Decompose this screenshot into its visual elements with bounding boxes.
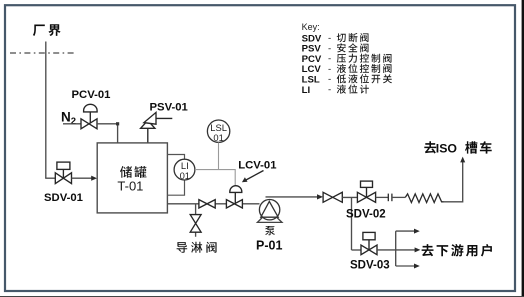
label P-01	[256, 238, 282, 252]
flexible hose (zigzag) to loading arm	[405, 194, 443, 203]
svg-text:2: 2	[71, 116, 76, 127]
svg-text:LCV-01: LCV-01	[238, 160, 276, 172]
wire: drain line	[195, 204, 197, 237]
valve SDV-01 (shutdown valve) with actuator	[55, 162, 71, 184]
legend row SDV	[302, 33, 369, 44]
svg-text:SDV-03: SDV-03	[350, 259, 390, 271]
svg-text:PCV-01: PCV-01	[72, 89, 111, 101]
signal wire: LI-01 to LCV-01	[195, 170, 235, 187]
label: tank (chu guan)	[120, 166, 147, 178]
svg-text:ISO: ISO	[436, 141, 458, 155]
label: to ISO tank truck (qu ISO cao che)	[424, 141, 491, 155]
label: plant boundary (chang jie)	[33, 24, 61, 36]
manual block valve (tank outlet)	[199, 200, 215, 208]
instrument LI-01 (level indicator) circle	[174, 159, 195, 181]
wire: N2 feed vertical line from boundary	[45, 42, 47, 179]
svg-text:LI: LI	[302, 85, 311, 96]
legend row PSV	[302, 43, 369, 54]
valve SDV-02 (shutdown valve) with actuator	[357, 181, 375, 202]
legend row LCV	[302, 64, 392, 75]
valve PCV-01 (pressure control valve) with diaphragm actuator	[81, 104, 97, 129]
signal wire: LSL-01 down to level signal line	[218, 143, 220, 170]
label PCV-01	[72, 89, 111, 101]
legend row LI	[302, 84, 369, 95]
tank T-01 vessel	[97, 143, 167, 213]
pump P-01 (centrifugal pump)	[257, 200, 282, 223]
svg-text:PSV-01: PSV-01	[150, 102, 188, 114]
wire: up to ISO tank truck with arrow	[444, 157, 466, 202]
wire: PCV-01 to tank top, corner junction	[97, 122, 119, 143]
label T-01	[117, 178, 143, 193]
drain valve (dao lin fa), vertical manual valve	[190, 215, 201, 233]
wire: bottom user branch with arrow	[396, 264, 420, 269]
svg-text:T-01: T-01	[117, 178, 143, 193]
svg-text:Key:: Key:	[302, 22, 320, 32]
legend row LSL	[302, 74, 392, 85]
wire + hose coupling (break flanges)	[376, 194, 406, 202]
valve SDV-03 (shutdown valve) with actuator	[361, 232, 377, 254]
svg-text:-: -	[328, 85, 331, 96]
wire: SDV-01 to tank with arrow	[72, 176, 98, 181]
label N2	[61, 109, 76, 127]
svg-text:SDV-02: SDV-02	[346, 208, 386, 220]
label LCV-01	[238, 160, 276, 172]
wire: middle user branch with arrow	[396, 247, 421, 252]
wire: pump discharge with arrow	[266, 194, 324, 199]
label SDV-01	[44, 192, 83, 204]
svg-text:N: N	[61, 109, 71, 124]
label PSV-01	[150, 102, 188, 114]
wire: tank nozzles to level indicator LI-01	[167, 155, 184, 196]
wire: SDV-03 to distribution header	[377, 231, 396, 266]
legend key title	[302, 22, 320, 32]
manual block valve (pump discharge)	[323, 192, 342, 202]
label: to downstream users (qu xia you yong hu)	[422, 244, 492, 257]
label: pump (beng)	[265, 226, 275, 235]
battery limit dash-dot line	[10, 52, 75, 54]
label SDV-03	[350, 259, 390, 271]
valve LCV-01 (level control valve) with diaphragm actuator	[226, 186, 242, 208]
label arrow to LCV-01	[242, 171, 264, 183]
wire: N2 line into PCV-01	[63, 123, 81, 125]
label: drain valve (dao lin fa)	[177, 242, 217, 253]
wire: branch down to SDV-03	[352, 249, 362, 251]
legend row PCV	[302, 54, 392, 65]
svg-text:01: 01	[213, 132, 223, 143]
label SDV-02	[346, 208, 386, 220]
wire: top user branch with arrow	[396, 229, 420, 234]
valve PSV-01 (safety relief valve)	[141, 112, 173, 142]
wire: tank outlet pipe to pump	[167, 203, 259, 205]
wire: line into valve SDV-01	[45, 177, 55, 179]
svg-text:P-01: P-01	[256, 238, 282, 252]
instrument LSL-01 (low level switch) circle	[207, 120, 229, 143]
wire: between block valve and SDV-02 with tee junction	[342, 197, 357, 250]
svg-text:SDV-01: SDV-01	[44, 192, 83, 204]
svg-text:01: 01	[180, 170, 190, 181]
